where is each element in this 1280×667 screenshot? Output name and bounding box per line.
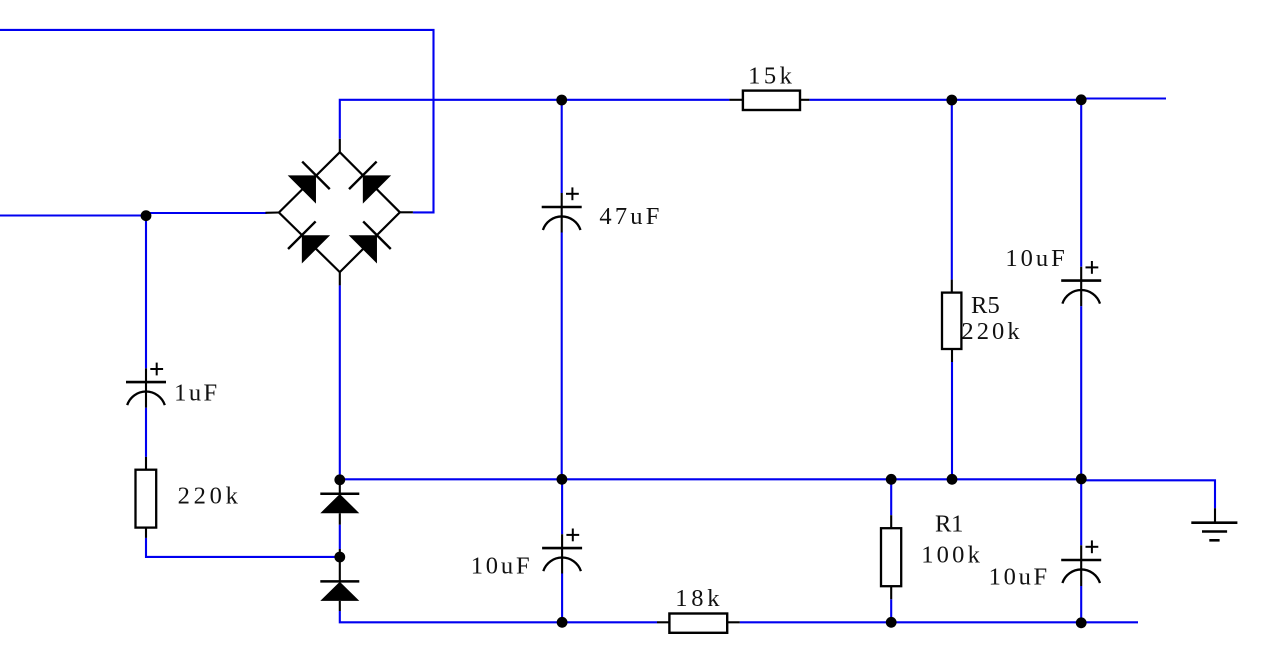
resistor R1 bottom pin bbox=[890, 586, 892, 599]
resistor 15k bbox=[743, 91, 800, 110]
resistor R5 top pin bbox=[951, 280, 953, 293]
bridge diode top-left bbox=[288, 161, 330, 203]
wire left rail into junction bbox=[0, 214, 146, 216]
bridge pin top bbox=[339, 139, 341, 152]
junction mid bus 10uF right bbox=[1076, 474, 1087, 485]
junction top bus R5 bbox=[946, 95, 957, 106]
resistor 15k right pin bbox=[800, 99, 809, 101]
resistor 18k right pin bbox=[727, 621, 740, 623]
svg-text:220k: 220k bbox=[178, 482, 239, 509]
wire R5 bottom to mid bus bbox=[951, 362, 953, 479]
bridge diode top-right bbox=[349, 161, 391, 203]
wire C 47uF down to mid bus bbox=[561, 233, 563, 480]
junction top bus 47uF bbox=[556, 95, 567, 106]
junction bottom bus 10uF right bbox=[1076, 617, 1087, 628]
capacitor C 10uF top-right bbox=[1061, 261, 1101, 306]
resistor 18k bbox=[669, 614, 727, 633]
wire bridge bottom to mid bus junction bbox=[339, 285, 341, 479]
bridge rectifier outline bbox=[279, 152, 400, 272]
svg-text:15k: 15k bbox=[748, 63, 793, 90]
bridge pin right bbox=[400, 211, 413, 213]
junction at left rail bbox=[141, 210, 152, 221]
junction mid bus 47uF bbox=[557, 474, 568, 485]
diode D2 lower bbox=[320, 549, 359, 611]
junction between diodes bbox=[334, 552, 345, 563]
resistor R5 bbox=[942, 293, 961, 349]
resistor 220k left bottom pin bbox=[145, 528, 147, 538]
svg-text:220k: 220k bbox=[961, 318, 1020, 345]
junction top bus 10uF right bbox=[1076, 94, 1087, 105]
wire top-left loop to bridge right pin bbox=[0, 30, 434, 213]
svg-text:100k: 100k bbox=[921, 542, 980, 569]
wire mid bus to ground bbox=[1081, 480, 1215, 508]
wire R1 bottom to bottom bus bbox=[890, 599, 892, 622]
wire 18k right to bottom bus right end bbox=[740, 621, 1138, 623]
wire blue segment between diodes D1 D2 bbox=[339, 525, 341, 549]
wire junction down to C 1uF bbox=[145, 216, 147, 369]
wire top junction down to C 10uF right bbox=[1080, 100, 1082, 267]
junction mid bus R5 bbox=[947, 474, 958, 485]
svg-text:10uF: 10uF bbox=[471, 553, 530, 580]
bridge diode bottom-left bbox=[288, 221, 330, 263]
resistor R1 bbox=[881, 528, 901, 586]
junction mid bus R1 bbox=[886, 474, 897, 485]
wire 15k right to top-right junctions bbox=[809, 99, 1081, 101]
wire top junction down to R5 bbox=[951, 100, 953, 280]
ground bbox=[1191, 508, 1237, 540]
junction mid bus diode bbox=[334, 474, 345, 485]
junction bottom bus R1 bbox=[886, 617, 897, 628]
svg-text:1uF: 1uF bbox=[174, 380, 217, 407]
wire top bus right end bbox=[1081, 97, 1166, 99]
capacitor C 10uF bottom-right bbox=[1061, 540, 1101, 586]
svg-text:R1: R1 bbox=[935, 511, 963, 538]
wire mid bus bbox=[340, 478, 1082, 480]
wire C 10uF bottom-right to bottom bus bbox=[1080, 586, 1082, 622]
wire C 10uF middle to bottom bus bbox=[561, 574, 563, 623]
junction bottom bus 10uF middle bbox=[557, 617, 568, 628]
svg-text:47uF: 47uF bbox=[599, 203, 659, 230]
resistor 15k left pin bbox=[729, 99, 743, 101]
bridge diode bottom-right bbox=[349, 221, 391, 263]
svg-text:10uF: 10uF bbox=[989, 564, 1048, 591]
svg-text:10uF: 10uF bbox=[1005, 245, 1064, 272]
resistor 220k left top pin bbox=[145, 457, 147, 470]
svg-text:18k: 18k bbox=[675, 585, 720, 612]
capacitor C 47uF bbox=[542, 187, 582, 232]
wire top junction down to C 47uF bbox=[561, 100, 563, 193]
wire junction to bridge left pin bbox=[146, 212, 266, 214]
bridge pin bottom bbox=[339, 272, 341, 285]
wire C 1uF to R 220k bbox=[145, 408, 147, 457]
capacitor C 1uF bbox=[126, 363, 166, 408]
resistor R1 top pin bbox=[890, 515, 892, 528]
wire mid bus down to C 10uF middle bbox=[561, 479, 563, 534]
wire mid bus down to R1 bbox=[890, 479, 892, 515]
wire diode D2 to bottom bus and to 18k left bbox=[340, 611, 657, 622]
svg-text:R5: R5 bbox=[971, 292, 1000, 319]
wire mid bus down to C 10uF bottom-right bbox=[1080, 479, 1082, 546]
bridge pin left bbox=[266, 211, 279, 213]
wire R 220k bottom to diode junction bbox=[146, 538, 340, 557]
resistor R5 bottom pin bbox=[951, 349, 953, 362]
wire bridge top to 15k left bbox=[340, 100, 730, 139]
resistor 220k left bbox=[136, 470, 157, 528]
resistor 18k left pin bbox=[657, 621, 669, 623]
diode D1 upper bbox=[320, 479, 359, 524]
wire C 10uF right down to mid bus bbox=[1080, 306, 1082, 479]
capacitor C 10uF middle bbox=[542, 529, 582, 574]
